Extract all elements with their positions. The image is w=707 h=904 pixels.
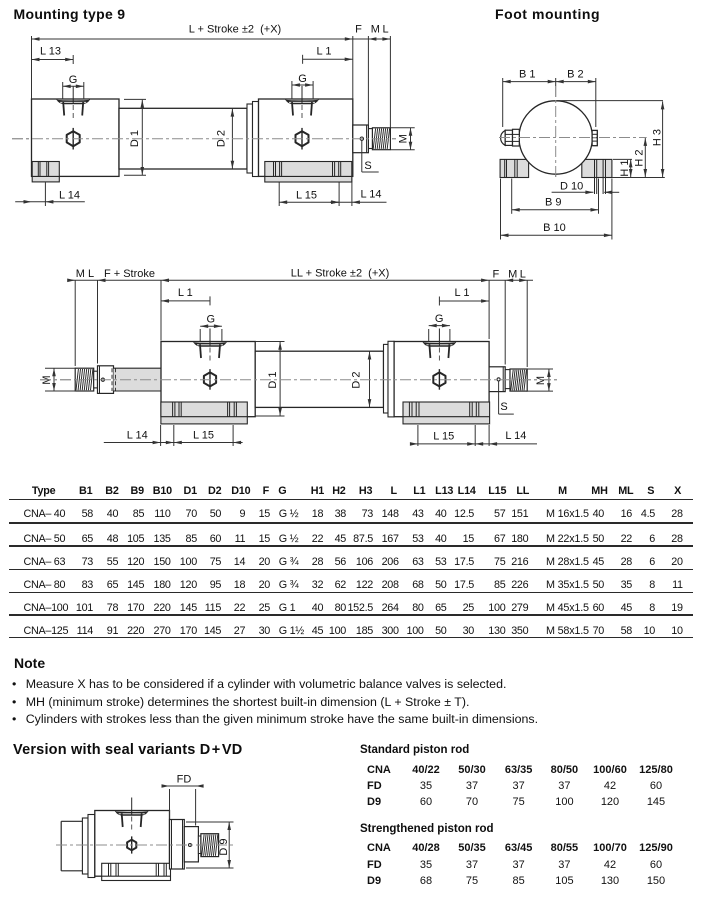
svg-text:L: L (88, 268, 94, 280)
left rod flange (98, 366, 114, 394)
centerline main axis (12, 138, 396, 140)
center vertical axis (555, 86, 557, 180)
svg-text:L 15: L 15 (433, 430, 454, 442)
centerline overlays foot mounting (555, 86, 557, 180)
flange rings middle (384, 344, 389, 413)
dim LL + Stroke / F+Stroke / M L (74, 280, 76, 366)
left port plug fitting (501, 130, 506, 145)
svg-text:G: G (207, 314, 216, 326)
dim G head1 (62, 82, 64, 99)
port G on head 2 (286, 99, 319, 104)
svg-text:D 9: D 9 (218, 838, 230, 855)
drawing: foot mounting (end view) (499, 69, 665, 240)
port G seal drawing (115, 811, 148, 816)
port G middle head 1 (194, 342, 227, 347)
port G middle head 2 (423, 342, 456, 347)
svg-text:L 14: L 14 (59, 190, 80, 202)
hex seal drawing (127, 840, 136, 851)
dim L 1 (top drawing) (303, 58, 353, 60)
head seal drawing (95, 811, 170, 877)
piston rod flange (353, 125, 369, 153)
centerline overlay top drawing (12, 138, 396, 140)
dim D 1 (124, 98, 146, 100)
svg-text:G: G (69, 74, 78, 86)
dim L + Stroke ±2 (+X) (31, 36, 33, 99)
port G on head 1 (57, 99, 90, 104)
title: Mounting type 9 (14, 6, 126, 22)
svg-text:B 9: B 9 (545, 196, 562, 208)
rod flange seal drawing (184, 827, 198, 862)
dim M middle right (526, 368, 553, 370)
dim B 10 (500, 179, 502, 240)
dim L14 / L15 middle left (160, 425, 162, 446)
svg-text:M: M (398, 134, 410, 143)
bottom reference line (612, 177, 665, 179)
svg-text:L 14: L 14 (127, 430, 148, 442)
svg-text:L: L (520, 269, 526, 281)
svg-text:L: L (382, 24, 388, 36)
dim D 1 middle (255, 341, 284, 343)
hex socket head 2 (296, 131, 309, 146)
foot under middle head 1 (161, 402, 247, 424)
dim L15 / L14 middle right (417, 425, 419, 446)
head 2 (rod end cap) (259, 99, 353, 176)
dim H 2 (644, 138, 646, 177)
flange rings seal drawing (82, 818, 88, 874)
dim B 1 / B 2 (502, 78, 504, 127)
svg-text:M: M (535, 376, 547, 385)
head 1 (rear end cap) (32, 99, 120, 176)
dim D 2 middle (369, 352, 371, 408)
svg-text:S: S (364, 160, 371, 172)
drawing: version with seal variants D+VD (56, 774, 235, 881)
dim L 14 right (351, 176, 353, 206)
leader S right (498, 381, 500, 414)
cylinder tube D2 section (119, 108, 247, 169)
cylinder barrel circle (519, 101, 592, 174)
svg-text:G: G (435, 313, 444, 325)
centerline overlay middle drawing (40, 379, 560, 381)
centerline seal drawing (56, 844, 235, 846)
foot left (500, 159, 528, 177)
foot under middle head 2 (403, 402, 490, 424)
standard piston rod table (360, 744, 469, 756)
right rod flange (489, 367, 505, 392)
dim L 1 middle right (439, 300, 489, 302)
svg-text:L + Stroke ±2 (+X): L + Stroke ±2 (+X) (189, 24, 281, 36)
svg-text:D 10: D 10 (560, 181, 583, 193)
foot bracket under head 2 (265, 162, 352, 183)
dim L 15 (top drawing) (278, 183, 280, 207)
tube D2 middle (255, 351, 383, 407)
svg-text:L 13: L 13 (40, 46, 61, 58)
hex middle head 2 (433, 372, 445, 386)
svg-text:H 3: H 3 (652, 129, 664, 146)
right rod step (505, 370, 510, 389)
svg-text:L 14: L 14 (505, 430, 526, 442)
svg-text:F: F (355, 24, 362, 36)
svg-text:F: F (493, 269, 500, 281)
svg-text:L 15: L 15 (296, 190, 317, 202)
svg-text:M: M (508, 269, 517, 281)
left rod step (94, 371, 98, 388)
dim M middle left (45, 367, 76, 369)
flange rings before head 2 (247, 104, 253, 173)
dim L 1 middle left (161, 300, 210, 302)
svg-text:LL + Stroke ±2 (+X): LL + Stroke ±2 (+X) (291, 268, 390, 280)
rod stub (368, 128, 372, 130)
centerline main axis middle (40, 379, 560, 381)
svg-text:M: M (76, 268, 85, 280)
head 2 middle (394, 342, 489, 417)
head 1 middle (161, 342, 255, 417)
thread seal drawing (201, 834, 219, 857)
svg-text:FD: FD (177, 774, 192, 786)
drawing: mounting type 9 (side view cylinder) (12, 24, 415, 207)
left piston rod (gray) (114, 368, 162, 391)
svg-text:G: G (298, 73, 307, 85)
tube stub (61, 820, 82, 822)
svg-text:H 1: H 1 (619, 159, 631, 176)
svg-text:H 2: H 2 (634, 149, 646, 166)
right port plug fitting (592, 130, 597, 145)
drawing: double rod cylinder (mounting LL) (40, 268, 560, 447)
dim B 9 (511, 179, 513, 214)
svg-text:F + Stroke: F + Stroke (104, 268, 155, 280)
centerline overlay seal drawing (56, 844, 235, 846)
rod step seal drawing (198, 836, 201, 854)
rod thread M (372, 128, 390, 150)
center horizontal axis (499, 137, 647, 139)
svg-text:L 14: L 14 (360, 188, 381, 200)
detail S circle (360, 137, 363, 140)
title: Foot mounting (495, 6, 600, 22)
hex socket head 1 (67, 131, 80, 146)
dim G middle head2 (428, 329, 430, 341)
svg-text:L 1: L 1 (317, 46, 332, 58)
hex middle head 1 (204, 372, 216, 386)
left S circle (101, 378, 104, 381)
foot right (582, 159, 612, 177)
svg-text:B 10: B 10 (543, 222, 566, 234)
svg-text:B 2: B 2 (567, 69, 584, 81)
foot seal drawing (102, 863, 171, 880)
svg-text:M: M (371, 24, 380, 36)
dim L 13 (32, 59, 74, 61)
svg-text:L 1: L 1 (178, 287, 193, 299)
foot right slot lines extended for D10 (594, 159, 596, 194)
section title (13, 742, 242, 758)
dim D 10 (552, 191, 594, 193)
dim M (thread) (391, 127, 415, 129)
dim L 14 left (44, 183, 46, 207)
svg-text:S: S (500, 401, 507, 413)
dim D 2 (231, 109, 233, 169)
VD seal cover flange (170, 820, 185, 870)
note section (14, 655, 45, 671)
dim FD (169, 789, 171, 819)
svg-text:B 1: B 1 (519, 69, 536, 81)
strengthened piston rod table (360, 823, 494, 835)
left rod thread M (75, 368, 94, 391)
dim H 3 (557, 100, 663, 102)
dim G head2 (291, 81, 293, 99)
dim G middle head1 (199, 329, 201, 341)
leader S (361, 140, 363, 172)
right rod thread M (510, 369, 527, 391)
svg-text:L 1: L 1 (455, 287, 470, 299)
svg-text:L 15: L 15 (193, 430, 214, 442)
dimension table (14, 485, 74, 497)
dim H 1 (613, 158, 632, 160)
dim D 9 (186, 821, 234, 823)
foot bracket under head 1 (32, 162, 59, 182)
